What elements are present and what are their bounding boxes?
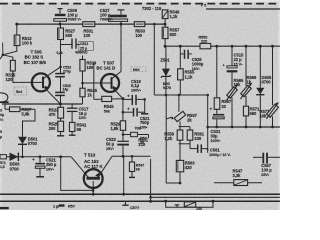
svg-text:100: 100 [135, 33, 143, 38]
svg-text:220: 220 [201, 40, 207, 44]
svg-text:9470: 9470 [163, 86, 171, 90]
svg-text:70/80V•: 70/80V• [100, 18, 114, 22]
svg-text:0700: 0700 [10, 166, 20, 171]
svg-text:35V•: 35V• [261, 173, 270, 177]
svg-text:33: 33 [221, 104, 226, 109]
svg-text:270µ: 270µ [63, 69, 71, 73]
svg-text:10V•: 10V• [79, 116, 88, 120]
svg-text:22 µ: 22 µ [234, 57, 243, 62]
svg-text:33µ: 33µ [211, 133, 219, 138]
svg-text:100V•: 100V• [131, 88, 142, 92]
svg-text:330: 330 [194, 136, 202, 141]
svg-text:10k: 10k [234, 82, 242, 87]
svg-text:+: + [127, 107, 130, 112]
svg-text:16V•: 16V• [192, 67, 201, 71]
svg-text:40/60Vb: 40/60Vb [75, 50, 87, 54]
svg-text:68: 68 [77, 127, 82, 132]
svg-text:N94: N94 [133, 68, 139, 72]
svg-text:AC 117 K: AC 117 K [84, 164, 103, 169]
svg-text:120: 120 [6, 77, 14, 82]
svg-text:1000µ / 16 V-: 1000µ / 16 V- [209, 153, 232, 157]
svg-text:+: + [210, 107, 213, 112]
svg-text:10k: 10k [260, 113, 268, 118]
svg-text:14µ: 14µ [63, 88, 69, 92]
svg-text:Z501: Z501 [160, 57, 170, 62]
svg-text:R5?: R5? [68, 205, 76, 209]
svg-text:1,8: 1,8 [0, 165, 5, 169]
svg-text:1,1k: 1,1k [170, 14, 179, 19]
svg-text:470: 470 [49, 112, 57, 117]
svg-text:820: 820 [170, 32, 178, 37]
svg-text:BC 107 B/6: BC 107 B/6 [24, 60, 47, 65]
svg-text:50: 50 [140, 140, 144, 144]
svg-text:0700: 0700 [262, 80, 272, 85]
svg-text:P 5: P 5 [201, 3, 206, 7]
svg-text:560: 560 [250, 111, 258, 116]
svg-text:0,2b: 0,2b [57, 51, 63, 55]
svg-text:R545: R545 [104, 104, 115, 109]
svg-text:5: 5 [0, 130, 2, 134]
svg-text:3: 3 [0, 108, 2, 112]
svg-text:2k: 2k [187, 117, 192, 122]
svg-text:0µ: 0µ [0, 113, 4, 117]
svg-text:5,6k: 5,6k [22, 112, 31, 117]
svg-text:16 µ: 16 µ [79, 111, 88, 116]
svg-text:1,1k: 1,1k [185, 74, 194, 79]
svg-text:1,8k: 1,8k [111, 126, 120, 131]
svg-text:100•: 100• [140, 126, 148, 130]
svg-text:7302 - 119: 7302 - 119 [142, 6, 162, 11]
svg-text:1k: 1k [87, 93, 92, 98]
svg-text:5e4: 5e4 [16, 90, 23, 94]
svg-text:70/80 V•: 70/80 V• [67, 18, 82, 22]
svg-text:1000µ: 1000µ [192, 61, 204, 66]
svg-text:1k: 1k [247, 80, 252, 85]
svg-text:560: 560 [65, 33, 73, 38]
svg-text:200: 200 [49, 126, 57, 131]
svg-text:T 513: T 513 [84, 153, 96, 158]
svg-text:10V•: 10V• [46, 167, 55, 171]
svg-text:+: + [32, 157, 35, 162]
svg-text:µ: µ [0, 135, 2, 139]
svg-text:100: 100 [83, 33, 91, 38]
svg-text:1,2k: 1,2k [164, 136, 173, 141]
svg-text:1 µF: 1 µF [53, 205, 61, 209]
svg-text:25V•: 25V• [106, 147, 115, 151]
svg-text:750µ: 750µ [140, 120, 150, 125]
svg-text:3,3k: 3,3k [233, 173, 242, 178]
svg-text:100 k: 100 k [22, 41, 33, 46]
svg-text:100V•: 100V• [211, 139, 222, 143]
svg-text:15 V•: 15 V• [234, 62, 244, 66]
svg-text:50 µ: 50 µ [106, 142, 115, 147]
svg-text:BC 141 D: BC 141 D [96, 66, 115, 71]
svg-text:250 µ: 250 µ [46, 162, 57, 167]
svg-text:420: 420 [185, 165, 193, 170]
svg-text:+: + [127, 94, 130, 99]
svg-text:150: 150 [196, 207, 202, 210]
svg-text:0700: 0700 [28, 141, 38, 146]
svg-text:C5??: C5?? [130, 206, 140, 210]
svg-text:100 µ: 100 µ [261, 168, 272, 173]
svg-text:56k: 56k [104, 109, 111, 113]
svg-text:180: 180 [86, 65, 94, 70]
svg-text:68: 68 [136, 168, 140, 172]
svg-text:+ C561: + C561 [206, 147, 220, 152]
